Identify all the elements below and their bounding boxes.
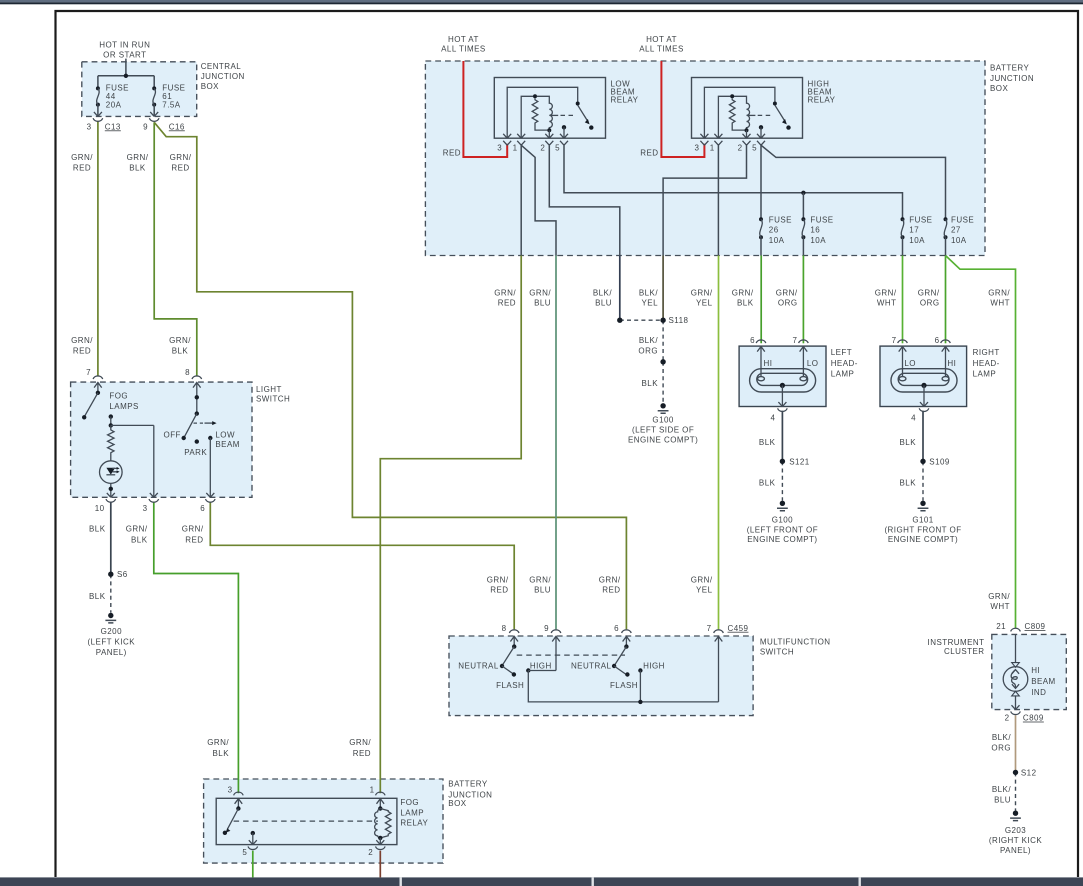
label S109: [929, 457, 950, 466]
light switch pin8 connector: [192, 376, 202, 414]
label HI BEAM IND: [1031, 666, 1055, 697]
svg-text:4: 4: [911, 414, 916, 423]
svg-text:HIGH: HIGH: [643, 661, 665, 670]
svg-text:10A: 10A: [810, 236, 826, 245]
svg-text:RED: RED: [602, 585, 620, 594]
svg-text:OFF: OFF: [164, 430, 181, 439]
label BLK right lamp: [900, 438, 917, 447]
svg-text:GRN/: GRN/: [349, 738, 371, 747]
label GRN/BLU mf9: [529, 576, 551, 595]
svg-text:BLK: BLK: [642, 379, 659, 388]
low relay internal: pin1 to coil: [521, 94, 537, 138]
label GRN/RED fog coil feed: [349, 738, 371, 758]
high beam relay U2 box: [692, 78, 803, 139]
ground G200: [105, 613, 116, 623]
top browser bar: [0, 0, 1083, 4]
svg-text:NEUTRAL: NEUTRAL: [458, 661, 499, 670]
svg-text:G100: G100: [652, 415, 673, 424]
pin 8 mf: [502, 624, 507, 633]
svg-text:6: 6: [200, 504, 205, 513]
label GRN/BLK pin3: [126, 525, 148, 545]
splice on BLK/ORG: [660, 359, 665, 364]
svg-text:RED: RED: [185, 535, 203, 544]
svg-text:GRN/: GRN/: [126, 525, 148, 534]
pin 3 fog relay: [228, 786, 233, 795]
wire high relay pin5 to fuse 27: [761, 145, 946, 219]
svg-text:GRN/: GRN/: [127, 153, 149, 162]
svg-text:BLK/: BLK/: [593, 288, 612, 297]
svg-text:G200: G200: [101, 627, 122, 636]
light switch fog contact node: [109, 414, 154, 497]
wire GRN/RED light switch pin6 to multifunction pin 8: [210, 502, 514, 630]
pin 9 mf: [544, 624, 549, 633]
svg-text:6: 6: [750, 336, 755, 345]
svg-text:7: 7: [792, 336, 797, 345]
low relay pin5 contact: [562, 125, 566, 138]
fog relay switch arm: [223, 806, 241, 835]
high relay pin chevrons 3 1 2 5: [700, 134, 765, 145]
svg-text:LOW: LOW: [215, 430, 235, 439]
svg-text:RED: RED: [73, 163, 91, 172]
svg-text:C13: C13: [105, 122, 121, 131]
svg-text:INSTRUMENT: INSTRUMENT: [928, 638, 985, 647]
label LO HI right lamp: [904, 359, 956, 368]
svg-text:FLASH: FLASH: [610, 681, 638, 690]
svg-text:LAMP: LAMP: [973, 370, 997, 379]
label HOT IN RUN OR START: [99, 41, 150, 60]
label BLK/ORG under S118: [638, 336, 658, 356]
fuse 44 20A: [96, 86, 100, 116]
instrument cluster box: [992, 634, 1067, 709]
svg-text:BATTERY: BATTERY: [448, 780, 488, 789]
wire BLK/BLU S12 to G203 (dashed): [1015, 772, 1017, 810]
svg-text:YEL: YEL: [696, 298, 713, 307]
wire high relay pin1 drop (in box): [717, 145, 719, 255]
label LEFT HEAD-LAMP: [831, 348, 858, 379]
light switch pin3 connector: [149, 493, 159, 502]
label BLK left lamp: [759, 438, 776, 447]
svg-text:7: 7: [892, 336, 897, 345]
pin 3 C13: [87, 122, 121, 131]
svg-text:S121: S121: [789, 457, 810, 466]
label S118: [669, 316, 689, 325]
svg-text:HI: HI: [1031, 666, 1040, 675]
svg-text:RED: RED: [640, 148, 658, 157]
svg-text:RED: RED: [73, 347, 91, 356]
label PARK: [184, 448, 207, 457]
hi beam indicator bulb: [1003, 663, 1028, 710]
svg-text:GRN/: GRN/: [599, 576, 621, 585]
svg-text:7.5A: 7.5A: [162, 101, 180, 110]
svg-text:GRN/: GRN/: [988, 288, 1010, 297]
svg-text:OR START: OR START: [103, 50, 146, 59]
svg-text:BLU: BLU: [534, 298, 551, 307]
label BATTERY JUNCTION BOX: [990, 63, 1034, 93]
right headlamp pin7 connector: [898, 340, 908, 377]
svg-text:JUNCTION: JUNCTION: [201, 72, 245, 81]
svg-text:ENGINE COMPT): ENGINE COMPT): [747, 535, 817, 544]
multifunction switch box: [449, 636, 753, 716]
svg-text:LO: LO: [904, 359, 916, 368]
fog relay pin5 connector: [248, 840, 258, 849]
svg-text:LAMP: LAMP: [400, 809, 424, 818]
wire high relay pin2 to BLK/YEL drop: [663, 145, 746, 255]
svg-text:2: 2: [738, 143, 743, 152]
pin 6 light switch: [200, 504, 205, 513]
svg-text:HOT AT: HOT AT: [448, 35, 479, 44]
fuse 26 10A: [759, 217, 763, 255]
svg-text:17: 17: [909, 226, 919, 235]
svg-text:BLU: BLU: [994, 796, 1011, 805]
fog relay coil: [375, 806, 391, 844]
right headlamp pin6 connector: [941, 340, 951, 377]
svg-text:1: 1: [710, 143, 715, 152]
pin 6 mf: [614, 624, 619, 633]
svg-text:GRN/: GRN/: [182, 525, 204, 534]
light switch pin10 connector: [106, 493, 116, 502]
label G200 (LEFT KICK PANEL): [88, 627, 136, 657]
svg-text:CLUSTER: CLUSTER: [944, 647, 985, 656]
wire low relay pin1 branch to GRN/BLU drop: [521, 145, 556, 255]
splice S121: [780, 459, 785, 464]
svg-text:GRN/: GRN/: [494, 288, 516, 297]
label BLK/BLU w3: [593, 288, 612, 307]
low relay pin chevrons 3 1 2 5: [503, 134, 568, 145]
label BLK pin10: [89, 525, 106, 534]
label BLK/YEL w4: [639, 288, 658, 307]
central junction box: [82, 62, 197, 117]
left headlamp box: [739, 346, 826, 406]
high relay coil winding: [734, 96, 750, 138]
svg-text:BLK: BLK: [172, 347, 189, 356]
wire GRN/BLK fuse61 to light switch pin 8: [154, 122, 197, 375]
wire BLK/ORG S118 down (dashed): [662, 320, 664, 362]
svg-text:BLK: BLK: [213, 749, 230, 758]
svg-text:1: 1: [513, 143, 518, 152]
label GRN/ORG w9: [918, 288, 940, 307]
svg-text:YEL: YEL: [642, 298, 659, 307]
svg-text:FOG: FOG: [400, 798, 419, 807]
low relay coil tap dashed link: [551, 114, 575, 116]
svg-text:RED: RED: [171, 163, 189, 172]
svg-text:ORG: ORG: [778, 298, 798, 307]
svg-text:BEAM: BEAM: [1031, 677, 1055, 686]
svg-text:(RIGHT FRONT OF: (RIGHT FRONT OF: [884, 525, 961, 534]
svg-text:5: 5: [752, 143, 757, 152]
label GRN/BLK fog feed: [207, 738, 229, 758]
wire GRN/BLK fuse26 to left headlamp pin 6: [760, 256, 762, 344]
label BATTERY JUNCTION BOX bottom: [448, 780, 492, 808]
svg-text:LEFT: LEFT: [831, 348, 852, 357]
label GRN/RED ls1: [71, 336, 93, 356]
pin 5 fog relay: [242, 848, 247, 857]
wire BLK/BLU low relay pin2 to splice S118: [619, 256, 621, 321]
svg-text:PARK: PARK: [184, 448, 207, 457]
svg-text:PANEL): PANEL): [1000, 846, 1031, 855]
svg-text:2: 2: [1005, 714, 1010, 723]
pin 6 left headlamp: [750, 336, 755, 345]
svg-text:BLK/: BLK/: [639, 336, 658, 345]
high relay switch arm: [775, 105, 791, 130]
label LOW BEAM: [215, 430, 239, 449]
svg-text:BLK: BLK: [900, 438, 917, 447]
instrument cluster pin2 connector: [1011, 705, 1021, 714]
pin 9 C16: [143, 122, 185, 131]
svg-text:FUSE: FUSE: [769, 215, 792, 224]
pin 7 light switch: [86, 368, 91, 377]
wire BLK/YEL high relay pin2 to splice S118: [662, 256, 664, 321]
fog relay pin3 connector: [234, 792, 244, 808]
ground G101: [918, 501, 929, 511]
wire GRN/WHT fuse17 to right headlamp pin 7: [902, 256, 904, 344]
light switch headlamp switch arm: [182, 395, 200, 440]
light switch fog lamp resistor: [108, 425, 114, 461]
wire low relay pin5 fuse bus: [564, 145, 903, 219]
wire RED feed to low beam relay: [463, 61, 507, 157]
svg-text:3: 3: [143, 504, 148, 513]
label GRN/ORG w7: [776, 288, 798, 307]
label BLK/BLU cluster: [992, 785, 1011, 805]
low relay internal: pin3 to switch common: [507, 87, 580, 138]
bottom task bar: [0, 877, 1083, 886]
wire BLK/ORG instrument cluster pin2 to S12: [1015, 715, 1017, 772]
svg-text:3: 3: [87, 122, 92, 131]
label HIGH right: [643, 661, 665, 670]
label HOT AT ALL TIMES left: [441, 35, 486, 54]
wire CJB bus: [98, 74, 154, 89]
svg-text:10A: 10A: [909, 236, 925, 245]
label HIGH BEAM RELAY: [808, 79, 836, 104]
label OFF: [164, 430, 181, 439]
wire GRN/ORG fuse27 to right headlamp pin 6: [945, 256, 947, 344]
label S121: [789, 457, 810, 466]
label G203 (RIGHT KICK PANEL): [989, 826, 1042, 855]
label CENTRAL JUNCTION BOX: [201, 62, 245, 91]
svg-text:GRN/: GRN/: [169, 336, 191, 345]
high relay pin labels 3 1 2 5: [694, 143, 757, 152]
svg-text:S118: S118: [669, 316, 689, 325]
svg-text:6: 6: [935, 336, 940, 345]
label S6: [117, 570, 128, 579]
svg-text:GRN/: GRN/: [691, 576, 713, 585]
svg-text:G100: G100: [772, 515, 793, 524]
label LOW BEAM RELAY: [611, 79, 639, 104]
label G100 (LEFT SIDE OF ENGINE COMPT): [628, 415, 698, 444]
pin 7 C459 mf: [707, 624, 749, 633]
svg-text:PANEL): PANEL): [96, 648, 127, 657]
svg-text:BATTERY: BATTERY: [990, 63, 1030, 72]
right headlamp pin4 connector: [919, 402, 929, 411]
svg-text:BLU: BLU: [534, 585, 551, 594]
label FUSE 27 10A: [951, 215, 974, 245]
light switch pin7 connector: [93, 376, 103, 393]
svg-text:RED: RED: [443, 148, 461, 157]
label GRN/YEL mf7: [691, 576, 713, 595]
svg-text:GRN/: GRN/: [988, 592, 1010, 601]
multifunction pin9 connector: [551, 630, 561, 671]
low relay switch arm: [578, 105, 594, 130]
high relay internal: pin1 to coil: [718, 94, 734, 138]
pin 4 right headlamp: [911, 414, 916, 423]
low beam relay U1 box: [494, 78, 605, 139]
connector C16 pin 9: [149, 112, 159, 121]
svg-text:WHT: WHT: [990, 602, 1010, 611]
label BLK above G200: [89, 592, 106, 601]
svg-text:GRN/: GRN/: [529, 576, 551, 585]
wire GRN/RED fuse44 to light switch pin 7: [97, 121, 99, 376]
fuse 61 7.5A: [152, 86, 156, 116]
left headlamp bulb: [750, 369, 816, 407]
svg-text:BLK/: BLK/: [992, 785, 1011, 794]
splice S118 and BLK/BLU end dot: [617, 318, 666, 323]
label GRN/WHT cluster: [988, 592, 1010, 611]
splice S109: [920, 459, 925, 464]
svg-text:(LEFT KICK: (LEFT KICK: [88, 638, 136, 647]
label GRN/WHT w10: [988, 288, 1010, 307]
svg-text:GRN/: GRN/: [875, 288, 897, 297]
multifunction HIGH contacts and bus: [526, 668, 718, 704]
svg-text:YEL: YEL: [696, 585, 713, 594]
svg-text:ALL TIMES: ALL TIMES: [441, 45, 486, 54]
label GRN/BLK w6: [732, 288, 754, 307]
label GRN/BLK ls2: [169, 336, 191, 356]
svg-text:BOX: BOX: [990, 84, 1008, 93]
svg-text:3: 3: [694, 143, 699, 152]
label RED right: [640, 148, 658, 157]
svg-text:RED: RED: [490, 585, 508, 594]
svg-text:FUSE: FUSE: [951, 215, 974, 224]
label GRN/YEL w5: [691, 288, 713, 307]
battery junction box (bottom, fog lamp relay): [204, 779, 443, 863]
wire RED feed to high beam relay: [661, 61, 704, 157]
wire BLK S121 to G100 (dashed): [781, 461, 783, 500]
svg-text:GRN/: GRN/: [776, 288, 798, 297]
svg-text:G203: G203: [1005, 826, 1026, 835]
wire GRN/RED low relay pin1 to fog relay pin 1: [380, 256, 521, 794]
svg-text:21: 21: [996, 622, 1006, 631]
label FUSE 26 10A: [769, 215, 792, 245]
fog relay pin5 contact: [251, 831, 255, 845]
svg-text:RED: RED: [498, 298, 516, 307]
wire BLK/BLU splice link to S118 (dashed): [620, 319, 663, 321]
svg-text:BOX: BOX: [448, 799, 466, 808]
label FUSE 16 10A: [810, 215, 833, 245]
svg-text:IND: IND: [1031, 688, 1046, 697]
fuse 16 10A: [801, 217, 805, 255]
light switch LOW BEAM contact to pin6: [208, 436, 212, 498]
svg-text:GRN/: GRN/: [170, 153, 192, 162]
pin 2 C809: [1005, 714, 1044, 723]
multifunction pin6 connector: [622, 630, 632, 647]
label FUSE 17 10A: [909, 215, 932, 245]
svg-text:MULTIFUNCTION: MULTIFUNCTION: [760, 637, 831, 646]
svg-text:(LEFT SIDE OF: (LEFT SIDE OF: [632, 426, 694, 435]
label RIGHT HEAD-LAMP: [973, 348, 1000, 379]
label NEUTRAL right: [571, 661, 612, 670]
svg-text:FUSE: FUSE: [810, 215, 833, 224]
svg-text:16: 16: [810, 226, 820, 235]
svg-text:GRN/: GRN/: [487, 576, 509, 585]
svg-text:ORG: ORG: [638, 346, 658, 355]
svg-text:C809: C809: [1025, 622, 1046, 631]
svg-text:LIGHT: LIGHT: [256, 385, 282, 394]
svg-text:27: 27: [951, 226, 961, 235]
light switch rotary arrow: [194, 421, 217, 425]
svg-text:(RIGHT KICK: (RIGHT KICK: [989, 836, 1042, 845]
wire GRN/RED C16 to multifunction pin 6: [154, 122, 626, 629]
label BLK above G100 side: [642, 379, 659, 388]
svg-text:LO: LO: [807, 359, 819, 368]
svg-text:BLK/: BLK/: [992, 733, 1011, 742]
svg-text:HOT AT: HOT AT: [646, 35, 677, 44]
pin 3 light switch: [143, 504, 148, 513]
svg-text:7: 7: [707, 624, 712, 633]
label BLK/ORG cluster: [991, 733, 1011, 753]
wire BLK right headlamp pin4 to S109: [922, 411, 924, 462]
multifunction mechanical dashed link: [517, 654, 625, 656]
svg-text:C459: C459: [728, 624, 749, 633]
svg-text:HOT IN RUN: HOT IN RUN: [99, 41, 150, 50]
svg-text:10A: 10A: [951, 236, 967, 245]
wire GRN/ORG fuse16 to left headlamp pin 7: [802, 256, 804, 344]
wire low relay pin2 to BLK/BLU drop: [549, 145, 620, 255]
svg-text:GRN/: GRN/: [691, 288, 713, 297]
svg-text:61: 61: [162, 92, 172, 101]
pin 4 left headlamp: [770, 414, 775, 423]
svg-text:2: 2: [540, 143, 545, 152]
pin 1 fog relay: [370, 786, 375, 795]
splice S12: [1013, 770, 1018, 775]
label S12: [1021, 768, 1037, 777]
svg-text:3: 3: [497, 143, 502, 152]
label GRN/RED w1: [494, 288, 516, 307]
multifunction pin7 connector: [714, 630, 724, 702]
low relay pin labels 3 1 2 5: [497, 143, 560, 152]
label GRN/RED pin6: [182, 525, 204, 545]
high relay pin5 contact: [759, 125, 763, 138]
high relay coil tap dashed link: [748, 114, 772, 116]
fuse 27 10A: [944, 217, 948, 255]
svg-text:RIGHT: RIGHT: [973, 348, 1000, 357]
svg-text:C809: C809: [1023, 714, 1044, 723]
svg-text:RELAY: RELAY: [808, 96, 836, 105]
svg-text:44: 44: [106, 92, 116, 101]
svg-text:FLASH: FLASH: [496, 681, 524, 690]
wire BLK S6 to G200 (dashed): [110, 574, 112, 612]
svg-text:LAMP: LAMP: [831, 370, 855, 379]
svg-text:FOG: FOG: [109, 391, 128, 400]
label FLASH right: [610, 681, 638, 690]
label FOG LAMPS: [109, 391, 138, 411]
svg-text:WHT: WHT: [877, 298, 897, 307]
label LIGHT SWITCH: [256, 385, 290, 404]
left headlamp pin7 connector: [799, 340, 809, 377]
svg-text:BLK: BLK: [900, 479, 917, 488]
svg-text:20A: 20A: [106, 101, 122, 110]
svg-text:SWITCH: SWITCH: [760, 648, 794, 657]
svg-text:HIGH: HIGH: [530, 661, 552, 670]
pin 2 fog relay: [368, 848, 373, 857]
svg-text:GRN/: GRN/: [918, 288, 940, 297]
svg-text:7: 7: [86, 368, 91, 377]
fog relay mechanical dashed link: [234, 820, 378, 822]
svg-text:WHT: WHT: [990, 298, 1010, 307]
svg-text:BLU: BLU: [595, 298, 612, 307]
label FOG LAMP RELAY: [400, 798, 428, 828]
svg-text:S6: S6: [117, 570, 128, 579]
pin 10 light switch: [95, 504, 105, 513]
splice S6: [108, 572, 113, 577]
